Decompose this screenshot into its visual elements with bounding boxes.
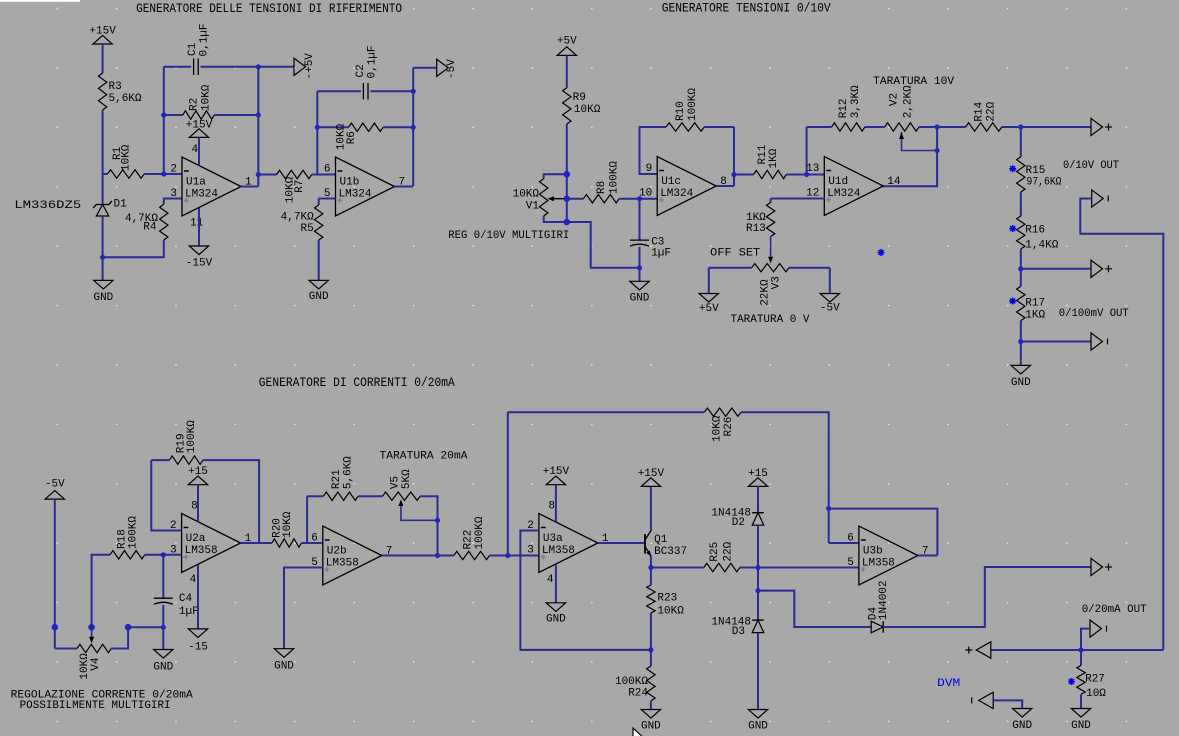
power -5V below V3: [820, 294, 839, 303]
stray blue asterisk: [878, 249, 885, 256]
wire R17 bottom: [1020, 321, 1022, 366]
wire R26 rail (long vertical): [507, 412, 509, 555]
node diode rail / pin5: [755, 565, 760, 570]
power +15V (left rail): [93, 35, 112, 44]
node C2 right: [411, 89, 416, 94]
ground (below R5): [309, 280, 328, 289]
op-amp U2a: [182, 514, 241, 573]
svg-text:2,2KΩ: 2,2KΩ: [903, 85, 915, 118]
op-amp U1c: [657, 157, 716, 216]
resistor R16: [1017, 216, 1025, 249]
resistor R18: [110, 551, 145, 559]
node U2b output: [435, 553, 440, 558]
resistor R27: [1080, 650, 1082, 665]
white artifact strip top-left: [0, 0, 80, 2]
svg-text:1µF: 1µF: [651, 247, 671, 259]
resistor R8: [567, 198, 584, 200]
svg-text:V4: V4: [90, 657, 102, 671]
resistor R19: [151, 459, 169, 461]
capacitor C4: [162, 555, 164, 598]
svg-text:R9: R9: [573, 92, 586, 104]
op-amp U1d: [824, 157, 883, 216]
svg-text:22Ω: 22Ω: [986, 101, 998, 121]
node U1a output: [256, 172, 261, 177]
output arrow 0/10V -: [1092, 190, 1104, 207]
diode D4 1N4002: [882, 621, 884, 633]
svg-text:5: 5: [847, 557, 854, 569]
wire to +5V output arrow: [258, 66, 294, 68]
node divider mid: [1018, 266, 1023, 271]
svg-text:R23: R23: [657, 593, 677, 605]
svg-text:GND: GND: [153, 662, 173, 674]
svg-text:R15: R15: [1026, 165, 1046, 177]
wire pin11: [198, 208, 200, 246]
wire V3 left to +5V: [708, 268, 710, 294]
svg-text:10KΩ: 10KΩ: [513, 189, 540, 201]
svg-text:LM324: LM324: [827, 188, 860, 200]
svg-text:0/20mA OUT: 0/20mA OUT: [1082, 604, 1147, 616]
node U1d pin13: [804, 172, 809, 177]
svg-text:OFF SET: OFF SET: [710, 247, 760, 259]
svg-text:C4: C4: [179, 593, 193, 605]
wire D3 to GND: [757, 633, 759, 710]
svg-text:R21: R21: [331, 469, 343, 489]
wire branch to D4: [758, 591, 871, 627]
svg-text:1N4002: 1N4002: [878, 580, 890, 620]
svg-text:1KΩ: 1KΩ: [1025, 310, 1045, 322]
ground (below C4): [154, 650, 173, 659]
svg-text:10KΩ: 10KΩ: [121, 144, 133, 171]
node D1/R4 junction: [100, 255, 105, 260]
wire pin4 U2a: [197, 565, 199, 629]
svg-text:R10: R10: [675, 101, 687, 121]
ground (below U2b): [274, 649, 293, 658]
svg-text:1µF: 1µF: [179, 606, 199, 618]
resistor R17: [1017, 286, 1025, 320]
potentiometer V4: [55, 648, 77, 650]
svg-text:GND: GND: [1011, 377, 1031, 389]
wire R4 top to pin3: [164, 199, 182, 205]
resistor R15: [1020, 127, 1022, 157]
DVM - arrow (left): [979, 692, 994, 708]
wire R9 to V1: [566, 124, 568, 222]
op-amp U1b: [336, 157, 395, 216]
op-amp U1a: [182, 157, 241, 216]
svg-text:R4: R4: [143, 222, 157, 234]
wire +15 to D2: [757, 486, 759, 512]
capacitor C1: [164, 66, 191, 68]
svg-text:R5: R5: [300, 223, 313, 235]
svg-text:R7: R7: [294, 180, 306, 193]
wire U2a output: [241, 542, 272, 544]
wire return line right rail: [1080, 199, 1163, 651]
wire R10 right to output node: [733, 127, 735, 186]
wire U1b output: [395, 186, 414, 188]
svg-text:R17: R17: [1025, 298, 1045, 310]
svg-text:LM358: LM358: [542, 545, 575, 557]
svg-text:GND: GND: [1012, 720, 1032, 732]
svg-text:TARATURA 10V: TARATURA 10V: [873, 76, 954, 88]
svg-text:LM324: LM324: [660, 188, 693, 200]
svg-text:3: 3: [170, 188, 177, 200]
svg-text:-15V: -15V: [186, 258, 213, 270]
output arrow 0/100mV -: [1091, 333, 1103, 350]
svg-text:+5V: +5V: [557, 36, 577, 48]
wire to GND (section B): [639, 268, 641, 282]
ground (below U3a): [546, 603, 565, 612]
resistor R24: [650, 650, 652, 666]
svg-text:+5V: +5V: [699, 303, 719, 315]
potentiometer V5: [358, 495, 382, 497]
power +5V (section B): [557, 47, 576, 56]
svg-text:5,6KΩ: 5,6KΩ: [343, 456, 355, 489]
svg-text:GENERATORE DELLE TENSIONI DI R: GENERATORE DELLE TENSIONI DI RIFERIMENTO: [136, 1, 402, 16]
power -15 below U2a: [188, 629, 207, 638]
ground (section B middle): [630, 281, 649, 290]
svg-text:4: 4: [190, 574, 197, 586]
svg-text:4: 4: [547, 574, 554, 586]
svg-text:GND: GND: [309, 291, 329, 303]
wire DVM - to GND: [993, 700, 1022, 708]
ground (section A left): [94, 280, 113, 289]
svg-text:V1: V1: [526, 200, 540, 212]
svg-text:97,6KΩ: 97,6KΩ: [1027, 176, 1062, 188]
wire U2b pin5 to GND: [284, 568, 323, 649]
wire R27 to GND: [1080, 694, 1082, 708]
power -5V (section C): [45, 491, 64, 500]
op-amp U3a: [539, 514, 598, 573]
wire Q1 collector to +15V: [650, 486, 652, 530]
diode D3 1N4148: [752, 619, 764, 621]
svg-text:-15: -15: [188, 642, 208, 654]
svg-text:U3a: U3a: [543, 533, 563, 545]
resistor R11: [734, 174, 754, 176]
svg-text:DVM: DVM: [937, 678, 960, 690]
node U1a pin2: [161, 171, 166, 176]
ground (below D3): [748, 710, 767, 719]
svg-text:V3: V3: [771, 276, 783, 289]
node U3b feedback: [826, 506, 831, 511]
node C1 right / +5V tap: [256, 64, 261, 69]
svg-text:11: 11: [190, 218, 204, 230]
wire U3a pin2 loop: [520, 531, 651, 650]
wire output rail U1a: [257, 67, 259, 187]
wire U1c output: [716, 185, 734, 187]
node R2 left: [161, 112, 166, 117]
node C3 top: [637, 196, 642, 201]
power +15V above U1a: [189, 129, 208, 138]
resistor R7: [258, 174, 276, 176]
svg-text:+15: +15: [188, 466, 208, 478]
resistor R14: [937, 126, 966, 128]
wire -5V to V4 rail: [54, 499, 56, 648]
svg-text:REG 0/10V MULTIGIRI: REG 0/10V MULTIGIRI: [448, 230, 569, 242]
svg-text:14: 14: [887, 176, 901, 188]
diode D1 LM336DZ5: [93, 201, 112, 208]
svg-text:3: 3: [527, 545, 534, 557]
svg-text:R16: R16: [1025, 224, 1045, 236]
svg-text:+15: +15: [748, 468, 768, 480]
wire C4 to GND: [162, 627, 164, 649]
svg-text:U1c: U1c: [661, 176, 681, 188]
svg-text:8: 8: [548, 501, 555, 513]
node V5 wiper: [435, 518, 440, 523]
output arrow 0/100mV +: [1091, 260, 1103, 277]
wire U3b output: [918, 555, 938, 557]
resistor R9: [563, 88, 571, 124]
output arrow 0/10V +: [1091, 118, 1103, 135]
svg-text:LM358: LM358: [185, 545, 218, 557]
svg-text:LM324: LM324: [185, 189, 218, 201]
svg-text:10KΩ: 10KΩ: [574, 104, 601, 116]
svg-text:10KΩ: 10KΩ: [657, 606, 684, 618]
wire U1d output to top row: [883, 127, 937, 186]
svg-text:LM358: LM358: [862, 558, 895, 570]
svg-text:6: 6: [311, 533, 318, 545]
svg-text:V5: V5: [390, 476, 402, 489]
wire U2b feedback loop: [306, 496, 308, 543]
resistor R12: [807, 126, 832, 128]
node C4 top / pin3: [161, 552, 166, 557]
DVM + arrow (left): [976, 642, 991, 658]
svg-text:GENERATORE DI CORRENTI 0/20mA: GENERATORE DI CORRENTI 0/20mA: [259, 375, 455, 390]
resistor R21: [307, 495, 323, 497]
svg-text:V2: V2: [889, 93, 901, 106]
svg-text:10KΩ: 10KΩ: [282, 511, 294, 538]
resistor R13: [771, 198, 825, 200]
ground (below R24): [641, 710, 660, 719]
svg-text:-5V: -5V: [820, 303, 840, 315]
wire U3a output to Q1 base: [598, 542, 644, 544]
svg-text:-5V: -5V: [446, 59, 458, 79]
svg-text:13: 13: [806, 163, 819, 175]
wire vertical feedback rail left: [163, 67, 165, 174]
svg-text:U2b: U2b: [327, 546, 347, 558]
svg-text:R26: R26: [723, 417, 735, 437]
wire R12 feedback rail: [806, 127, 808, 175]
svg-text:D1: D1: [114, 199, 128, 211]
svg-text:-5V: -5V: [45, 478, 65, 490]
wire D2 to emitter row: [757, 525, 759, 620]
svg-text:100KΩ: 100KΩ: [186, 420, 198, 453]
svg-text:TARATURA 20mA: TARATURA 20mA: [380, 451, 468, 463]
power +15 above U2a: [188, 476, 207, 485]
wire R15-R16: [1020, 192, 1022, 216]
svg-text:TARATURA 0 V: TARATURA 0 V: [731, 314, 810, 326]
svg-text:D2: D2: [732, 517, 745, 529]
potentiometer V2: [865, 126, 885, 128]
power +5V arrow (right): [294, 58, 306, 75]
svg-text:U2a: U2a: [186, 533, 206, 545]
svg-text:BC337: BC337: [654, 546, 687, 558]
svg-text:10KΩ: 10KΩ: [712, 415, 724, 442]
svg-text:LM336DZ5: LM336DZ5: [14, 200, 81, 212]
svg-text:U1b: U1b: [340, 177, 360, 189]
svg-text:GENERATORE TENSIONI 0/10V: GENERATORE TENSIONI 0/10V: [662, 1, 831, 16]
svg-text:5KΩ: 5KΩ: [401, 469, 413, 489]
node R6 left: [315, 125, 320, 130]
svg-text:R14: R14: [974, 101, 986, 121]
svg-text:10KΩ: 10KΩ: [200, 84, 212, 111]
resistor R3: [98, 73, 106, 110]
node U3a pin3: [505, 553, 510, 558]
output arrow 0/20mA -: [1090, 620, 1102, 637]
wire U3b feedback to output: [829, 509, 938, 556]
svg-text:R2: R2: [188, 98, 200, 111]
svg-text:100KΩ: 100KΩ: [474, 516, 486, 549]
node R23/R24: [648, 647, 653, 652]
power +15V above Q1: [641, 478, 660, 487]
wire Q1 emitter node: [650, 556, 652, 585]
mouse cursor: [633, 728, 646, 736]
wire U1b feedback left rail: [316, 91, 318, 174]
wire sense node row: [991, 649, 1164, 651]
svg-text:LM358: LM358: [326, 558, 359, 570]
wire U1c pin9 feedback: [640, 127, 667, 174]
node V2 wiper: [935, 148, 940, 153]
wire junction to GND: [102, 257, 104, 280]
capacitor C2: [317, 90, 361, 92]
node Q1 emitter: [648, 565, 653, 570]
svg-text:C2: C2: [355, 64, 367, 77]
svg-text:4: 4: [192, 144, 199, 156]
wire pin8 U3a: [555, 485, 557, 522]
svg-text:C1: C1: [187, 42, 199, 56]
node V4 right: [125, 624, 132, 631]
power +15V above U3a: [546, 476, 565, 485]
power -5V arrow (section A): [437, 59, 449, 76]
svg-text:Q1: Q1: [654, 534, 668, 546]
wire R3 to D1: [102, 110, 104, 205]
svg-text:1,4KΩ: 1,4KΩ: [1025, 239, 1058, 251]
node V1 bottom: [564, 219, 571, 226]
node R2 right: [256, 112, 261, 117]
wire +5V to R9: [566, 55, 568, 87]
wire V1 bottom to gnd rail: [567, 222, 640, 268]
wire junction to R4 bottom: [103, 240, 164, 257]
svg-text:GND: GND: [748, 721, 768, 733]
svg-text:GND: GND: [274, 661, 294, 673]
svg-text:D3: D3: [732, 626, 745, 638]
svg-text:10Ω: 10Ω: [1086, 688, 1106, 700]
svg-text:R27: R27: [1085, 673, 1105, 685]
power +5V below V3: [699, 294, 718, 303]
transistor Q1 BC337: [644, 534, 646, 554]
wire pin4 U3a: [555, 565, 557, 603]
wire V4 right to C4/GND rail: [128, 626, 163, 628]
wire to ' arrow bottom: [1021, 341, 1091, 343]
svg-text:GND: GND: [641, 721, 661, 733]
ground (DVM): [1013, 709, 1032, 718]
wire D4 to output arrow: [883, 567, 1091, 627]
resistor R5: [319, 198, 336, 200]
node V4 left: [52, 624, 59, 631]
svg-text:2: 2: [170, 520, 177, 532]
svg-text:+15V: +15V: [89, 26, 116, 38]
svg-text:100KΩ: 100KΩ: [687, 88, 699, 121]
svg-text:4,7KΩ: 4,7KΩ: [281, 211, 314, 223]
svg-text:100KΩ: 100KΩ: [127, 516, 139, 549]
op-amp U2b: [323, 526, 382, 585]
node C4 bottom: [161, 625, 166, 630]
wire R1 to pin2 node: [144, 173, 182, 175]
wire D1 to gnd node: [102, 216, 104, 257]
capacitor C3: [639, 199, 641, 240]
svg-text:-+5V: -+5V: [304, 53, 316, 80]
wire R19 feedback loop: [151, 460, 181, 530]
power -15V below U1a: [189, 246, 208, 255]
svg-text:+15V: +15V: [638, 468, 665, 480]
wire pin8 U2a: [197, 485, 199, 522]
svg-text:POSSIBILMENTE MULTIGIRI: POSSIBILMENTE MULTIGIRI: [20, 700, 171, 712]
svg-text:U3b: U3b: [863, 546, 883, 558]
wire pin4: [198, 137, 200, 165]
node V2 right: [935, 124, 940, 129]
wire R24 to GND: [650, 701, 652, 710]
node divider bottom: [1018, 339, 1023, 344]
svg-text:3,3KΩ: 3,3KΩ: [850, 85, 862, 118]
svg-text:10: 10: [639, 188, 652, 200]
svg-text:6: 6: [847, 533, 854, 545]
svg-text:0/100mV OUT: 0/100mV OUT: [1059, 308, 1129, 320]
svg-text:0,1µF: 0,1µF: [367, 45, 379, 78]
potentiometer V1: [544, 174, 567, 178]
svg-text:R25: R25: [709, 542, 721, 562]
node V1 wiper: [564, 195, 571, 202]
svg-text:100KΩ: 100KΩ: [615, 676, 648, 688]
ground (divider): [1011, 365, 1030, 374]
svg-text:22Ω: 22Ω: [722, 541, 734, 561]
wire rail to R1: [103, 173, 108, 175]
resistor R23: [647, 585, 655, 613]
wire U1a output: [241, 186, 258, 188]
resistor R6: [317, 126, 348, 128]
resistor R20: [272, 539, 302, 547]
svg-text:5,6KΩ: 5,6KΩ: [109, 93, 142, 105]
svg-text:2: 2: [170, 164, 177, 176]
svg-text:GND: GND: [546, 613, 566, 625]
wire R16-R17: [1020, 249, 1022, 286]
svg-text:U1d: U1d: [828, 176, 848, 188]
node D4 branch: [755, 588, 760, 593]
svg-text:100KΩ: 100KΩ: [608, 161, 620, 194]
svg-text:R13: R13: [746, 223, 766, 235]
svg-text:1KΩ: 1KΩ: [768, 148, 780, 168]
svg-text:LM324: LM324: [339, 189, 372, 201]
wire -5V feed: [412, 68, 414, 187]
resistor R1: [108, 170, 145, 178]
svg-text:R24: R24: [628, 688, 648, 700]
svg-text:R12: R12: [838, 98, 850, 118]
resistor R2: [164, 114, 183, 116]
svg-text:GND: GND: [630, 292, 650, 304]
svg-text:GND: GND: [1071, 720, 1091, 732]
wire R18 left leg: [92, 555, 110, 627]
resistor R4: [160, 204, 168, 240]
resistor R25: [651, 567, 704, 569]
svg-text:8: 8: [191, 501, 198, 513]
resistor R10: [666, 123, 704, 131]
wire R25 to diode rail: [740, 567, 758, 569]
svg-text:GND: GND: [93, 292, 113, 304]
svg-text:R6: R6: [346, 131, 358, 144]
power +15 above D2: [748, 478, 767, 487]
node sense: [1078, 647, 1083, 652]
svg-text:+15V: +15V: [543, 466, 570, 478]
output arrow 0/20mA +: [1091, 558, 1103, 575]
svg-text:U1a: U1a: [186, 177, 206, 189]
node R6 right: [411, 125, 416, 130]
